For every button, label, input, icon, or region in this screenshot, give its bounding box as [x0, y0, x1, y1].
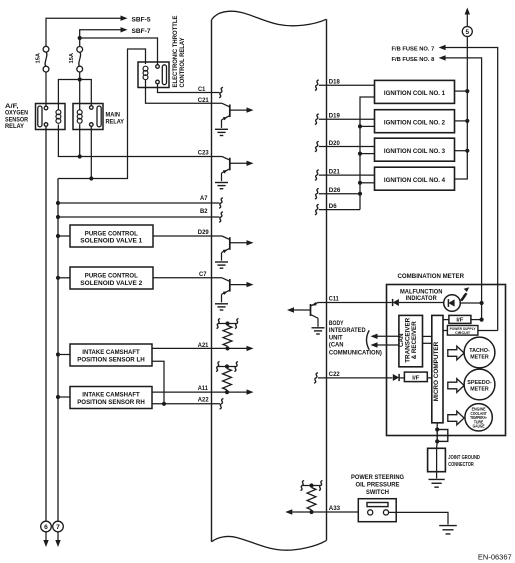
wire LED to supply	[460, 301, 483, 305]
block arrow to tachometer	[448, 346, 464, 360]
svg-text:INTAKE CAMSHAFT: INTAKE CAMSHAFT	[82, 392, 139, 399]
svg-text:UNIT: UNIT	[329, 334, 343, 341]
wire micro computer ground	[435, 423, 439, 432]
lightning flash symbol	[460, 287, 469, 301]
wire left switched bus	[57, 179, 59, 522]
svg-text:COMBINATION METER: COMBINATION METER	[398, 273, 465, 280]
diode D1 (C11, cathode left)	[393, 299, 444, 306]
svg-text:PURGE CONTROL: PURGE CONTROL	[85, 273, 138, 280]
wire pin A7	[56, 201, 220, 205]
ground (power steering switch)	[439, 526, 457, 534]
label JOINT GROUND CONNECTOR	[448, 455, 480, 468]
wire D19 to ignition coil no.2	[319, 118, 375, 120]
label EN-06367	[478, 553, 512, 562]
wire SBF-7 feed	[80, 27, 128, 46]
wire fuse-2 to MAIN relay coil	[79, 72, 81, 110]
label C22	[329, 371, 340, 378]
svg-text:MAIN: MAIN	[106, 113, 121, 119]
label D6	[329, 203, 337, 210]
svg-text:GAUGE: GAUGE	[473, 424, 485, 429]
label F/B FUSE NO. 8	[392, 57, 436, 63]
svg-text:OIL PRESSURE: OIL PRESSURE	[356, 482, 400, 489]
wire pin A22	[152, 402, 220, 406]
relay MAIN RELAY box	[73, 104, 103, 130]
wire branch to MAIN relay contact	[80, 80, 92, 106]
pin D6 connector	[315, 204, 319, 215]
node junction on fuse-2 line (y38)	[78, 36, 82, 40]
wire A21 into micro	[212, 346, 254, 351]
arrow down from 7	[55, 532, 60, 548]
A/F relay contact pin top	[44, 106, 48, 110]
svg-text:PURGE CONTROL: PURGE CONTROL	[85, 230, 138, 237]
wire fuse-2 branch to ETC relay contact	[80, 38, 158, 65]
component INTAKE CAMSHAFT POSITION SENSOR RH box	[56, 387, 152, 409]
wire valve2 to pin C7	[153, 277, 222, 279]
component IGNITION COIL NO. 3 box	[375, 138, 455, 161]
svg-text:D18: D18	[329, 79, 341, 86]
svg-text:C1: C1	[198, 86, 206, 93]
wire ETC coil to pin C21	[146, 79, 223, 103]
label SBF-5	[132, 17, 152, 24]
svg-text:POSITION SENSOR LH: POSITION SENSOR LH	[77, 356, 145, 363]
svg-text:CIRCUIT: CIRCUIT	[455, 331, 471, 335]
svg-text:6: 6	[44, 524, 48, 531]
svg-text:A7: A7	[200, 195, 208, 202]
label ELECTRONIC THROTTLE CONTROL RELAY	[172, 16, 186, 88]
svg-text:C21: C21	[198, 97, 209, 104]
wire pin B2	[56, 215, 220, 219]
svg-text:JOINT GROUND: JOINT GROUND	[448, 455, 480, 461]
label MALFUNCTION INDICATOR	[400, 289, 443, 303]
label SBF-7	[132, 28, 152, 35]
ETC relay coil	[143, 66, 148, 80]
wire MAIN relay output to ETC coil supply	[58, 49, 146, 181]
label F/B FUSE NO. 7	[392, 46, 436, 52]
transistor Q1 (C21 driver)	[215, 103, 254, 135]
svg-text:F/B FUSE NO. 7: F/B FUSE NO. 7	[392, 46, 436, 52]
gauge TACHOMETER	[464, 337, 495, 368]
svg-text:OXYGEN: OXYGEN	[5, 111, 28, 117]
svg-text:15A: 15A	[69, 52, 75, 63]
wire CAN low to body unit	[371, 342, 399, 347]
svg-text:C7: C7	[199, 271, 207, 278]
label C11	[329, 296, 340, 303]
wire ETC contact to pin C1	[158, 84, 220, 93]
block arrow to temperature gauge	[448, 411, 464, 425]
svg-text:SBF-7: SBF-7	[132, 28, 152, 35]
label BODY INTEGRATED UNIT (CAN COMMUNICATION)	[329, 320, 382, 357]
component PURGE CONTROL SOLENOID VALVE 2 box	[56, 267, 153, 289]
svg-text:D6: D6	[329, 203, 337, 210]
wire relay coils to pin C23	[58, 124, 222, 158]
svg-text:D20: D20	[329, 140, 341, 147]
label C21	[198, 97, 209, 104]
svg-text:SWITCH: SWITCH	[366, 489, 389, 496]
wire meter to joint ground connector	[436, 441, 439, 478]
box I/F (C22)	[404, 372, 431, 382]
svg-text:CONNECTOR: CONNECTOR	[448, 462, 474, 468]
resistor R3 (A33 pull-up)	[300, 480, 322, 514]
pin D18 connector	[315, 80, 319, 91]
label A11	[198, 385, 209, 392]
svg-text:D26: D26	[329, 187, 341, 194]
A/F relay contact pin bottom	[44, 123, 48, 127]
label COMBINATION METER	[398, 273, 465, 280]
svg-text:INTAKE CAMSHAFT: INTAKE CAMSHAFT	[82, 349, 139, 356]
svg-text:SENSOR: SENSOR	[5, 117, 29, 123]
ETC relay contact bar	[162, 65, 166, 85]
svg-text:IGNITION COIL NO. 1: IGNITION COIL NO. 1	[384, 90, 446, 97]
wire switch to ground	[389, 512, 448, 524]
svg-text:A11: A11	[198, 385, 209, 392]
label 15A (fuse 2)	[69, 52, 75, 63]
ETC relay contact pin bottom	[156, 80, 160, 84]
component IGNITION COIL NO. 2 box	[375, 110, 455, 133]
svg-text:C22: C22	[329, 371, 340, 378]
wire LH sensor to pin A21	[152, 347, 212, 349]
svg-text:RELAY: RELAY	[5, 124, 24, 130]
connector circle 7	[53, 521, 64, 532]
meter ground connector box	[435, 430, 448, 444]
pin C1 connector	[219, 87, 223, 98]
wire pin C11 to meter	[318, 302, 392, 304]
box CAN TRANSCEIVER & RECEIVER	[398, 315, 423, 366]
wire fuse-1 to A/F relay contact	[45, 72, 47, 106]
resistor R1 (A21 pull-up)	[216, 318, 238, 350]
label C1	[198, 86, 206, 93]
svg-text:A21: A21	[198, 342, 209, 349]
connector circle 5	[462, 27, 472, 37]
label A33	[329, 505, 341, 512]
svg-text:ELECTRONIC THROTTLE: ELECTRONIC THROTTLE	[172, 16, 179, 88]
svg-text:SPEEDO-: SPEEDO-	[467, 380, 491, 386]
arrow down from 6	[43, 532, 48, 548]
fuse 15A no.2	[77, 47, 83, 73]
pin D26 connector	[315, 188, 319, 199]
svg-text:SOLENOID VALVE 1: SOLENOID VALVE 1	[80, 238, 142, 245]
pin D20 connector	[315, 141, 319, 152]
wire pin C22	[314, 373, 392, 384]
label D18	[329, 79, 341, 86]
label A/F OXYGEN SENSOR RELAY	[5, 104, 29, 130]
svg-text:COMMUNICATION): COMMUNICATION)	[329, 350, 382, 357]
svg-text:IGNITION COIL NO. 2: IGNITION COIL NO. 2	[384, 119, 446, 126]
wire RH sensor to pin A11	[152, 391, 212, 393]
MAIN relay coil	[77, 110, 82, 124]
box POWER SUPPLY CIRCUIT	[443, 326, 498, 336]
combination meter box	[387, 285, 506, 436]
fuse 15A no.1	[43, 46, 49, 72]
pin D19 connector	[315, 114, 319, 125]
ground (Q5 emitter)	[312, 328, 325, 334]
transistor Q3 (D29 driver)	[215, 236, 254, 268]
svg-text:A33: A33	[329, 505, 341, 512]
A/F relay contact bar	[38, 106, 42, 127]
svg-text:BODY: BODY	[329, 320, 344, 327]
arrow up from 5	[465, 8, 470, 27]
wire D26 to rail	[319, 192, 362, 196]
svg-text:D29: D29	[198, 229, 209, 236]
svg-text:D21: D21	[329, 169, 341, 176]
wire CAN box to micro (high)	[423, 335, 432, 337]
svg-text:5: 5	[466, 29, 470, 36]
gauge SPEEDOMETER	[464, 369, 495, 400]
svg-text:& RECEIVER: & RECEIVER	[411, 321, 418, 360]
svg-text:TACHO-: TACHO-	[469, 348, 490, 354]
label D20	[329, 140, 341, 147]
pin A7 connector	[219, 198, 223, 209]
svg-text:POWER STEERING: POWER STEERING	[351, 474, 404, 481]
svg-text:F/B FUSE NO. 8: F/B FUSE NO. 8	[392, 57, 436, 63]
svg-text:POSITION SENSOR RH: POSITION SENSOR RH	[77, 399, 145, 406]
wire left power bus (A/F relay output)	[45, 126, 47, 521]
svg-text:B2: B2	[200, 208, 208, 215]
wire D6 to rail	[319, 209, 360, 211]
label POWER STEERING OIL PRESSURE SWITCH	[351, 474, 404, 496]
svg-text:INTEGRATED: INTEGRATED	[329, 327, 366, 334]
label C7	[199, 271, 207, 278]
wire pin A33	[285, 509, 358, 514]
MAIN relay contact pin bottom	[90, 123, 94, 127]
wire ignition coil supply rail	[455, 37, 470, 180]
label D26	[329, 187, 341, 194]
wire CAN box to micro (low)	[423, 342, 432, 344]
svg-text:METER: METER	[470, 387, 489, 393]
label A7	[200, 195, 208, 202]
svg-text:CONTROL RELAY: CONTROL RELAY	[179, 37, 186, 88]
wire F/B fuse no.8 feed	[439, 55, 482, 319]
wire LH sensor ground branch	[152, 361, 164, 404]
pin B2 connector	[219, 212, 223, 223]
pin A22 connector	[220, 399, 224, 410]
wire branch to A/F relay coil	[58, 80, 79, 111]
svg-text:C11: C11	[329, 296, 340, 303]
transistor Q5 (C11 driver)	[287, 302, 318, 327]
component PURGE CONTROL SOLENOID VALVE 1 box	[56, 225, 153, 247]
label MAIN RELAY	[106, 113, 125, 126]
node junction on fuse-2 drop (y80.5)	[78, 77, 82, 81]
transistor Q4 (C7 driver)	[215, 278, 254, 310]
ground (joint ground connector)	[428, 479, 444, 487]
wire F/B fuse no.7 feed	[439, 45, 498, 331]
label 15A (fuse 1)	[35, 52, 41, 63]
diode D2 (C22, anode left)	[393, 374, 405, 381]
connector JOINT GROUND CONNECTOR box	[428, 448, 446, 471]
wire valve1 to pin D29	[153, 235, 222, 237]
svg-text:7: 7	[56, 524, 60, 531]
svg-text:I/F: I/F	[412, 375, 419, 381]
switch POWER STEERING OIL PRESSURE SWITCH	[358, 499, 396, 522]
svg-text:EN-06367: EN-06367	[478, 553, 512, 562]
svg-text:IGNITION COIL NO. 3: IGNITION COIL NO. 3	[384, 148, 446, 155]
svg-text:SBF-5: SBF-5	[132, 17, 152, 24]
svg-text:METER: METER	[470, 355, 489, 361]
A/F relay coil	[56, 110, 61, 124]
label A22	[198, 397, 209, 404]
block arrow to speedometer	[448, 379, 464, 393]
svg-text:15A: 15A	[35, 52, 41, 63]
wire D20 to ignition coil no.3	[319, 146, 375, 148]
label B2	[200, 208, 208, 215]
svg-text:D19: D19	[329, 113, 341, 120]
component IGNITION COIL NO. 4 box	[375, 167, 455, 190]
svg-text:A/F,: A/F,	[5, 104, 19, 110]
wire A11 into micro	[212, 389, 254, 394]
svg-text:C23: C23	[198, 150, 209, 157]
relay ELECTRONIC THROTTLE CONTROL RELAY box	[138, 62, 169, 88]
LED malfunction indicator lamp	[444, 295, 461, 312]
component INTAKE CAMSHAFT POSITION SENSOR LH box	[56, 344, 152, 366]
transistor Q2 (C23 driver)	[215, 157, 254, 189]
label D29	[198, 229, 209, 236]
CAN bus arc	[367, 330, 370, 349]
resistor R2 (A11 pull-up)	[216, 361, 238, 394]
component IGNITION COIL NO. 1 box	[375, 80, 455, 103]
wire D21 to ignition coil no.4	[319, 174, 375, 176]
label A21	[198, 342, 209, 349]
connector circle 6	[41, 521, 52, 532]
svg-text:RELAY: RELAY	[106, 119, 125, 125]
svg-text:(CAN: (CAN	[329, 342, 344, 349]
wire ignition coil common rail	[358, 97, 375, 210]
wire CAN high to body unit	[371, 334, 399, 339]
svg-text:SOLENOID VALVE 2: SOLENOID VALVE 2	[80, 280, 142, 287]
label D21	[329, 169, 341, 176]
pin D21 connector	[315, 170, 319, 181]
relay A/F OXYGEN SENSOR RELAY box	[36, 104, 66, 130]
svg-text:IGNITION COIL NO. 4: IGNITION COIL NO. 4	[384, 177, 446, 184]
box MICRO COMPUTER	[432, 315, 443, 422]
wire D18 to ignition coil no.1	[319, 84, 375, 86]
MAIN relay contact bar	[97, 106, 101, 127]
MAIN relay contact pin top	[90, 106, 94, 110]
svg-text:I/F: I/F	[456, 318, 463, 324]
wire SBF-5 feed	[46, 16, 128, 47]
label C23	[198, 150, 209, 157]
ETC relay contact pin top	[156, 65, 160, 69]
gauge ENGINE COOLANT TEMPERATURE GAUGE	[465, 404, 492, 431]
box I/F (upper)	[443, 315, 484, 323]
svg-text:A22: A22	[198, 397, 209, 404]
svg-text:INDICATOR: INDICATOR	[406, 295, 437, 302]
label D19	[329, 113, 341, 120]
ECM body outline (torn-edge block)	[212, 11, 327, 550]
svg-text:MICRO COMPUTER: MICRO COMPUTER	[433, 341, 440, 401]
